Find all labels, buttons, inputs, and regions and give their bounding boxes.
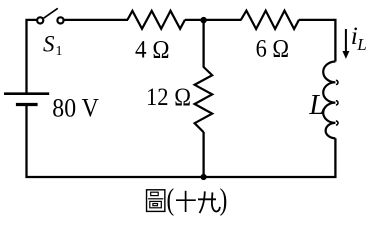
resistor 12ohm (195, 67, 213, 132)
current arrow iL (342, 29, 349, 59)
inductor L (323, 62, 335, 139)
svg-text:L: L (356, 35, 366, 54)
wire: 6-ohm to top-right corner (299, 20, 335, 62)
svg-text:4 Ω: 4 Ω (135, 37, 170, 64)
resistor R 4ohm (128, 11, 186, 29)
svg-text:80 V: 80 V (52, 94, 99, 123)
wire: 12-ohm down to bottom rail (202, 132, 204, 177)
wire: inductor to bottom-right corner (27, 105, 336, 178)
svg-text:1: 1 (56, 44, 63, 59)
wire: switch to 4-ohm resistor (64, 19, 128, 21)
junction dot bottom (201, 174, 207, 180)
svg-text:(: ( (167, 182, 175, 216)
caption: glyph TU (figure) (147, 190, 165, 212)
battery 80V (4, 94, 49, 105)
wire: top-left corner to switch (27, 20, 38, 93)
switch S1 (37, 8, 64, 23)
svg-text:): ) (220, 182, 228, 216)
caption: glyph ten (176, 191, 196, 212)
caption: glyph nine (198, 191, 220, 213)
node A junction dot (200, 17, 206, 23)
wire: 4-ohm to node A (185, 19, 242, 21)
svg-text:6 Ω: 6 Ω (256, 36, 290, 63)
wire: node A down to 12-ohm (202, 20, 204, 68)
svg-text:L: L (308, 90, 325, 121)
svg-text:12 Ω: 12 Ω (146, 84, 191, 111)
resistor 6ohm (241, 11, 299, 29)
svg-text:S: S (43, 32, 55, 57)
